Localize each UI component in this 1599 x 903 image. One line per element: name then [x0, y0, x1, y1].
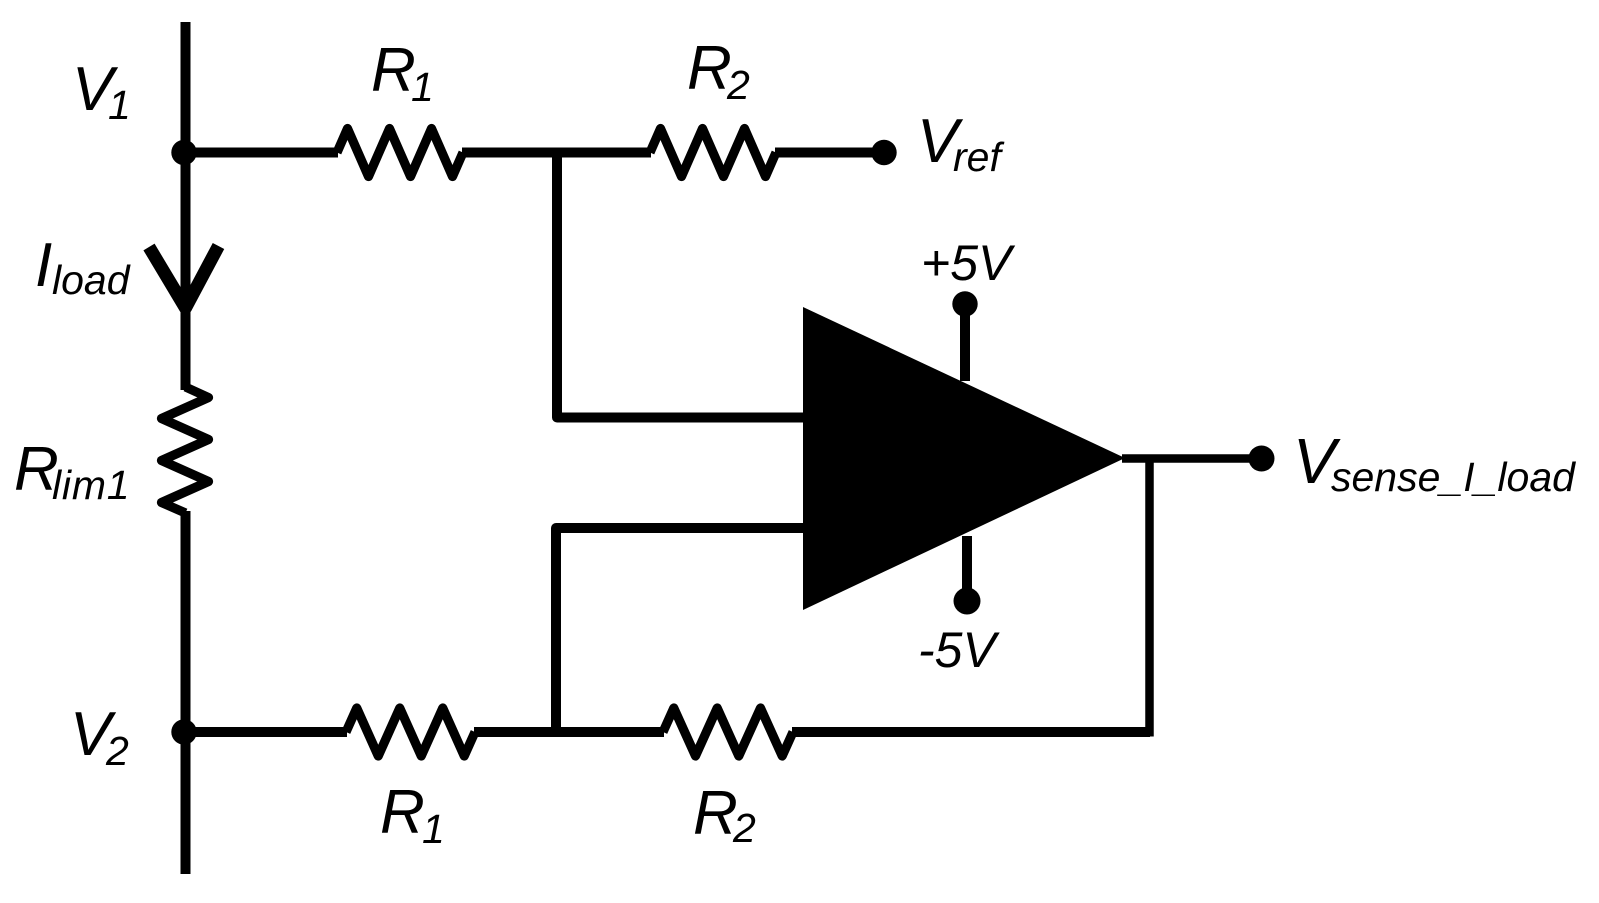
- svg-text:2: 2: [726, 62, 750, 108]
- label Rlim1: [14, 435, 130, 508]
- wire R1 to R2 top (through node): [462, 148, 651, 158]
- svg-text:1: 1: [422, 806, 445, 852]
- wire left vertical bottom (V2 branch): [181, 511, 191, 874]
- svg-text:I: I: [35, 231, 52, 300]
- svg-text:load: load: [52, 257, 131, 303]
- label I_load: [35, 231, 131, 303]
- node V2 junction dot: [171, 719, 196, 744]
- resistor R1 top: [337, 129, 463, 177]
- svg-text:1: 1: [108, 82, 131, 128]
- resistor Rlim1: [162, 387, 209, 513]
- svg-text:-5V: -5V: [918, 622, 1000, 678]
- label R2 top: [687, 34, 750, 108]
- label Vsense_I_load: [1293, 425, 1576, 500]
- svg-text:sense_I_load: sense_I_load: [1331, 454, 1576, 500]
- node -5V terminal dot: [954, 588, 981, 615]
- node +5V terminal dot: [952, 291, 977, 316]
- label R2 bottom: [693, 779, 756, 851]
- label R1 bottom: [380, 778, 445, 852]
- label V2: [70, 700, 129, 774]
- resistor R1 bottom: [346, 708, 475, 756]
- wire top node down to op-amp non-inverting input: [557, 153, 804, 418]
- svg-text:1: 1: [411, 64, 434, 110]
- svg-text:R: R: [380, 778, 425, 847]
- arrow I_load current direction: [149, 246, 219, 308]
- svg-text:lim1: lim1: [52, 462, 130, 508]
- wire op-amp output to Vsense terminal: [1122, 454, 1261, 463]
- node Vsense terminal dot: [1249, 446, 1275, 472]
- wire V1 node to R1: [181, 148, 338, 158]
- label V1: [72, 55, 131, 128]
- op-amp U1: [803, 307, 1125, 610]
- svg-text:R: R: [693, 779, 738, 848]
- label Vref: [917, 107, 1004, 180]
- wire R2 to Vref terminal: [775, 148, 884, 158]
- svg-text:ref: ref: [953, 134, 1004, 180]
- svg-text:R: R: [371, 36, 416, 105]
- wire left vertical top (V1 branch): [181, 22, 191, 390]
- node V1 junction dot: [171, 140, 196, 165]
- wire -5V pin: [962, 536, 972, 600]
- wire feedback vertical from output to bottom wire: [1145, 459, 1154, 737]
- svg-text:+5V: +5V: [921, 235, 1016, 291]
- resistor R2 top: [650, 129, 776, 177]
- node Vref terminal dot: [871, 140, 896, 165]
- svg-text:2: 2: [105, 728, 129, 774]
- wire +5V pin: [960, 304, 970, 381]
- svg-text:R: R: [687, 34, 732, 103]
- wire V2 node to R1 bottom: [181, 727, 347, 737]
- wire R2 bottom to feedback corner: [792, 727, 1150, 737]
- wire R1 bottom to R2 bottom (through node): [474, 727, 664, 737]
- resistor R2 bottom: [663, 708, 793, 756]
- label R1 top: [371, 36, 434, 110]
- wire bottom node up to op-amp inverting input: [556, 528, 804, 732]
- svg-text:2: 2: [732, 805, 756, 851]
